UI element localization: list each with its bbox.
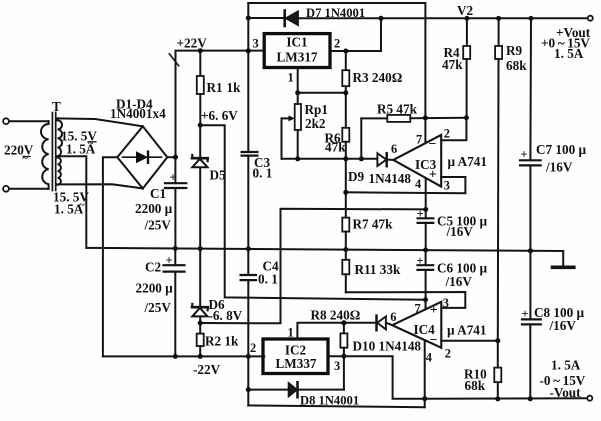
svg-text:-22V: -22V bbox=[193, 362, 221, 377]
wire: R11 to IC4 pin3 loop bbox=[346, 292, 466, 308]
label C7 100u/16V bbox=[536, 142, 586, 175]
svg-text:µ A741: µ A741 bbox=[447, 323, 486, 338]
svg-text:3: 3 bbox=[253, 37, 259, 51]
label -22V bbox=[193, 362, 221, 377]
wire: left +22V bus vertical bbox=[247, 3, 249, 405]
node: C2 on -22V rail bbox=[173, 354, 178, 359]
svg-text:1N4001x4: 1N4001x4 bbox=[110, 106, 166, 121]
svg-text:6: 6 bbox=[390, 310, 396, 324]
svg-text:−: − bbox=[430, 333, 438, 348]
node: D5/D6 on ground rail bbox=[198, 246, 203, 251]
pin 2 label IC1 bbox=[334, 37, 340, 51]
label V2 bbox=[457, 3, 474, 18]
node: pin1/Rp1 junction bbox=[295, 90, 300, 95]
pin 6 label IC4 bbox=[390, 310, 396, 324]
label C6 100u/16V bbox=[437, 261, 487, 290]
node: R9 on +V rail bbox=[496, 16, 501, 21]
node: R7 top junction bbox=[343, 190, 348, 195]
wire: IC4 pin7 stub bbox=[425, 300, 427, 310]
pin 1 label IC2 bbox=[288, 326, 294, 340]
node: C7 on +V rail bbox=[529, 16, 534, 21]
svg-text:2200 µ: 2200 µ bbox=[135, 201, 173, 216]
wire: -V output rail bbox=[425, 397, 587, 400]
svg-text:4: 4 bbox=[415, 177, 421, 191]
label 1.5A -0~15V -Vout bbox=[540, 358, 586, 400]
capacitor C7 bbox=[520, 18, 541, 250]
wire: IC3 pin3 loop bbox=[346, 177, 466, 193]
svg-text:68k: 68k bbox=[465, 378, 486, 393]
wire: IC3 pin2 loop bbox=[441, 118, 466, 141]
wire: IC1 pin2 output bbox=[330, 18, 381, 51]
pin 2 label IC2 bbox=[250, 341, 256, 355]
label R4 47k bbox=[442, 45, 463, 72]
node: C7/C8 on ground rail bbox=[528, 248, 533, 253]
node: R8 top junction bbox=[341, 320, 346, 325]
label R8 240ohm bbox=[311, 308, 361, 323]
node: R8/IC2 pin3 junction bbox=[342, 354, 347, 359]
svg-text:2200 µ: 2200 µ bbox=[136, 280, 174, 295]
label T bbox=[52, 99, 61, 114]
svg-text:LM337: LM337 bbox=[275, 356, 316, 371]
svg-text:+: + bbox=[522, 307, 529, 321]
label D7 1N4001 bbox=[306, 6, 365, 20]
wire: -22V bottom link bbox=[248, 405, 424, 407]
svg-text:R9: R9 bbox=[506, 43, 523, 58]
svg-text:2: 2 bbox=[444, 127, 450, 141]
svg-text:47k: 47k bbox=[325, 140, 346, 155]
node: C5/C6 on ground rail bbox=[423, 248, 428, 253]
svg-text:+: + bbox=[430, 303, 438, 318]
wire: Rp1/R6/D9 node wire bbox=[282, 158, 378, 160]
capacitor C3 bbox=[242, 152, 258, 156]
node: R3/R6 junction bbox=[343, 90, 348, 95]
wire: IC2 pin1 adj bbox=[297, 323, 376, 339]
svg-text:+: + bbox=[170, 171, 177, 185]
wire: R5 branch riser bbox=[360, 118, 362, 158]
diode D7 bbox=[285, 11, 298, 27]
node: left bus on -22V rail bbox=[246, 354, 251, 359]
svg-text:1k: 1k bbox=[227, 80, 242, 95]
wire: center tap to ground rail bbox=[58, 156, 87, 248]
svg-text:3: 3 bbox=[334, 359, 340, 373]
label uA741 (IC3) bbox=[448, 154, 487, 169]
wire: IC4 pin2 to R9/R10 bbox=[441, 340, 498, 342]
svg-text:R3 240Ω: R3 240Ω bbox=[353, 70, 403, 85]
label R1 1k bbox=[207, 80, 242, 95]
svg-text:7: 7 bbox=[415, 301, 421, 315]
wire: +6.6V branch to IC4 pin7 bbox=[200, 125, 425, 300]
wire: IC1 pin1 adj bbox=[298, 68, 346, 93]
node: IC1 out on +V rail bbox=[379, 16, 384, 21]
svg-text:/25V: /25V bbox=[144, 217, 172, 232]
label +22V bbox=[177, 36, 208, 51]
wire: bridge left vertex to -22V rail bbox=[103, 157, 117, 356]
svg-text:R11 33k: R11 33k bbox=[355, 262, 401, 277]
wire: R9 branch bbox=[498, 18, 500, 45]
op-amp IC4 bbox=[392, 302, 441, 348]
svg-text:µ A741: µ A741 bbox=[448, 154, 487, 169]
svg-text:+: + bbox=[417, 254, 424, 268]
resistor R4 bbox=[463, 46, 470, 118]
pin 7 label IC3 bbox=[416, 133, 422, 147]
svg-text:−: − bbox=[429, 137, 437, 152]
svg-text:D9: D9 bbox=[348, 169, 365, 184]
svg-text:R2 1k: R2 1k bbox=[205, 333, 239, 348]
bridge rectifier D1-D4 diamond bbox=[117, 126, 167, 188]
pin 3 label IC3 bbox=[444, 179, 450, 193]
switch slash mark bbox=[169, 54, 178, 66]
resistor R3 bbox=[342, 51, 349, 93]
label R10 68k bbox=[464, 367, 487, 394]
label C1 2200u/25V bbox=[135, 186, 173, 233]
wire: secondary bottom to bridge AC node bbox=[58, 184, 143, 188]
node: V2 on +V rail bbox=[464, 16, 469, 21]
svg-text:0. 1: 0. 1 bbox=[253, 165, 273, 180]
svg-text:+6. 6V: +6. 6V bbox=[201, 108, 238, 123]
svg-text:1N4148: 1N4148 bbox=[369, 171, 412, 186]
label D6 -6.8V bbox=[209, 297, 243, 323]
label R11 33k bbox=[355, 262, 401, 277]
wire: IC2 pin3 output bbox=[328, 356, 425, 399]
label D5 bbox=[210, 168, 227, 183]
pin 3 label IC4 bbox=[443, 296, 449, 310]
pin 1 label IC1 bbox=[288, 70, 294, 84]
wire: bridge right vertex to +22V node bbox=[167, 156, 175, 158]
pin 2 label IC3 bbox=[444, 127, 450, 141]
svg-text:IC1: IC1 bbox=[286, 35, 307, 50]
pin 6 label IC3 bbox=[391, 142, 397, 156]
transformer T core bbox=[52, 113, 55, 191]
svg-text:V2: V2 bbox=[457, 3, 474, 18]
svg-text:/16V: /16V bbox=[445, 274, 473, 289]
svg-text:R7 47k: R7 47k bbox=[353, 217, 394, 232]
pin 2 label IC4 bbox=[445, 346, 451, 360]
label D8 1N4001 bbox=[300, 394, 359, 408]
resistor R8 bbox=[340, 323, 347, 390]
wire: primary bottom lead bbox=[9, 188, 49, 190]
node: D7 junction on bus bbox=[246, 16, 251, 21]
transformer T primary winding bbox=[41, 121, 49, 189]
resistor R10 bbox=[494, 341, 501, 399]
regulator IC1 LM317 bbox=[264, 34, 330, 68]
label +6.6V bbox=[201, 108, 238, 123]
resistor R2 bbox=[197, 323, 204, 356]
svg-text:220V: 220V bbox=[4, 143, 34, 158]
svg-text:1. 5A: 1. 5A bbox=[54, 202, 84, 217]
svg-text:+: + bbox=[429, 168, 437, 183]
svg-text:D5: D5 bbox=[210, 168, 227, 183]
zener diode D6 bbox=[192, 249, 208, 323]
ground rail (0V) bbox=[86, 248, 563, 251]
capacitor C4 bbox=[241, 275, 256, 280]
label C3 0.1 bbox=[253, 155, 273, 180]
diode D10 bbox=[377, 316, 393, 331]
capacitor C5 bbox=[417, 207, 434, 250]
resistor R7 bbox=[342, 218, 349, 250]
pin 4 label IC4 bbox=[426, 351, 432, 365]
wire: +22V riser bbox=[176, 51, 265, 158]
node: Rp1 bottom bbox=[295, 156, 300, 161]
node: R7/R11 on ground rail bbox=[343, 247, 348, 252]
svg-text:4: 4 bbox=[426, 351, 432, 365]
label D1-D4 1N4001x4 bbox=[110, 97, 166, 121]
AC input terminal top bbox=[3, 118, 9, 124]
svg-text:1: 1 bbox=[288, 326, 294, 340]
label secondary upper 15.5V 1.5A bbox=[61, 129, 97, 157]
svg-text:2k2: 2k2 bbox=[305, 116, 326, 131]
node: R9/R10/pin2 junction bbox=[495, 338, 500, 343]
wire: top link to IC3 pin7 bbox=[248, 3, 425, 118]
svg-text:D7 1N4001: D7 1N4001 bbox=[306, 6, 365, 20]
wire: -6.8V branch to IC3 pin4 bbox=[200, 209, 426, 324]
resistor R9 bbox=[495, 46, 502, 341]
svg-text:/25V: /25V bbox=[144, 300, 172, 315]
svg-text:/16V: /16V bbox=[549, 318, 577, 333]
wire: IC3 pin7 stub bbox=[424, 118, 426, 143]
capacitor C2 bbox=[164, 248, 185, 356]
potentiometer Rp1 bbox=[282, 93, 302, 159]
label R6 47k bbox=[325, 131, 347, 155]
label C2 2200u/25V bbox=[136, 259, 174, 315]
resistor R11 bbox=[342, 250, 349, 293]
zener diode D5 bbox=[192, 125, 208, 248]
pin 7 label IC4 bbox=[415, 301, 421, 315]
svg-text:2: 2 bbox=[250, 341, 256, 355]
terminal +Vout bbox=[588, 16, 593, 21]
svg-text:/16V: /16V bbox=[446, 224, 474, 239]
node: C1/C2 on ground rail bbox=[173, 246, 178, 251]
node: D8 wire on bus bbox=[246, 387, 251, 392]
transformer T secondary upper winding bbox=[58, 118, 63, 156]
bridge inner diode symbol bbox=[123, 151, 162, 163]
AC input terminal bottom bbox=[3, 186, 9, 192]
node: bridge+ / C1 junction bbox=[173, 155, 178, 160]
node: R5/pin7 junction bbox=[423, 115, 428, 120]
svg-text:R1: R1 bbox=[207, 80, 223, 95]
svg-text:-6. 8V: -6. 8V bbox=[209, 308, 243, 323]
wire: V2 branch bbox=[466, 18, 468, 45]
label R7 47k bbox=[353, 217, 394, 232]
label C4 0.1 bbox=[258, 259, 279, 287]
label uA741 (IC4) bbox=[447, 323, 486, 338]
op-amp IC3 bbox=[393, 135, 441, 187]
svg-text:0. 1: 0. 1 bbox=[258, 271, 278, 286]
svg-text:+22V: +22V bbox=[177, 36, 208, 51]
capacitor C6 bbox=[417, 250, 434, 309]
svg-text:C1: C1 bbox=[150, 186, 166, 201]
wire: D8 branch bbox=[248, 389, 344, 391]
svg-text:3: 3 bbox=[444, 179, 450, 193]
svg-text:D8 1N4001: D8 1N4001 bbox=[300, 394, 359, 408]
diode D9 bbox=[377, 153, 393, 166]
wire: IC4 pin4 to -Vout junction bbox=[424, 340, 426, 407]
label R2 1k bbox=[205, 333, 239, 348]
svg-text:3: 3 bbox=[443, 296, 449, 310]
svg-text:D10 1N4148: D10 1N4148 bbox=[353, 339, 422, 354]
svg-text:LM317: LM317 bbox=[276, 50, 317, 65]
svg-text:+: + bbox=[166, 254, 173, 268]
svg-text:2: 2 bbox=[334, 37, 340, 51]
svg-text:/16V: /16V bbox=[545, 160, 573, 175]
svg-text:68k: 68k bbox=[506, 58, 527, 73]
node: R1 top on +22V wire bbox=[198, 48, 203, 53]
svg-text:C7 100 µ: C7 100 µ bbox=[536, 142, 586, 157]
svg-text:1. 5A: 1. 5A bbox=[554, 46, 584, 61]
node: +22V wire on bus bbox=[246, 48, 251, 53]
node: -Vout 4-way junction bbox=[422, 396, 427, 401]
pin 3 label IC2 bbox=[334, 359, 340, 373]
svg-text:1. 5A: 1. 5A bbox=[66, 142, 96, 157]
label Rp1 2k2 bbox=[305, 102, 328, 131]
label R9 68k bbox=[506, 43, 527, 73]
svg-text:2: 2 bbox=[445, 346, 451, 360]
svg-text:R5 47k: R5 47k bbox=[377, 102, 418, 117]
node: R5 tap bbox=[359, 156, 364, 161]
node: R2 on -22V rail bbox=[198, 354, 203, 359]
wire: primary top lead bbox=[9, 120, 49, 122]
capacitor C8 bbox=[522, 251, 541, 399]
label C5 100u/16V bbox=[437, 214, 487, 240]
svg-text:47k: 47k bbox=[442, 57, 463, 72]
label D10 1N4148 bbox=[353, 339, 422, 354]
node: +6.6V junction bbox=[198, 123, 203, 128]
svg-text:+: + bbox=[417, 207, 424, 221]
node: C3/C4 bus on ground rail bbox=[246, 246, 251, 251]
node: -6.8V to pin4 junction bbox=[423, 207, 428, 212]
resistor R5 bbox=[361, 115, 466, 122]
pin 4 label IC3 bbox=[415, 177, 421, 191]
pin 3 label IC1 bbox=[253, 37, 259, 51]
transformer T secondary lower winding bbox=[58, 158, 61, 185]
node: R4 bottom junction bbox=[464, 115, 469, 120]
svg-text:-Vout: -Vout bbox=[550, 385, 582, 400]
wire: secondary top to bridge AC node bbox=[58, 118, 143, 126]
label secondary lower 15.5V 1.5A bbox=[53, 190, 89, 217]
svg-text:Rp1: Rp1 bbox=[305, 102, 328, 117]
label R3 240ohm bbox=[353, 70, 403, 85]
label D9 1N4148 bbox=[348, 169, 411, 186]
node: -6.8V junction bbox=[198, 321, 203, 326]
diode D8 bbox=[289, 382, 298, 397]
node: R3 top bbox=[343, 49, 348, 54]
svg-text:1: 1 bbox=[288, 70, 294, 84]
node: R10 on -V rail bbox=[495, 396, 500, 401]
resistor R6 bbox=[342, 93, 349, 159]
wire: IC3 pin4 stub bbox=[425, 178, 427, 218]
svg-text:6: 6 bbox=[391, 142, 397, 156]
node: R6 bottom bbox=[343, 156, 348, 161]
svg-text:R8 240Ω: R8 240Ω bbox=[311, 308, 361, 323]
resistor R1 bbox=[197, 51, 204, 126]
label 220V bbox=[4, 143, 34, 165]
svg-text:+: + bbox=[521, 148, 528, 162]
wire: R7 chain bbox=[345, 159, 347, 218]
svg-text:7: 7 bbox=[416, 133, 422, 147]
ground symbol bbox=[553, 251, 574, 267]
label +Vout +0~15V 1.5A bbox=[541, 25, 591, 61]
wire: -22V rail bbox=[103, 355, 264, 357]
label C8 100u/16V bbox=[534, 305, 584, 333]
svg-text:T: T bbox=[52, 99, 61, 114]
regulator IC2 LM337 bbox=[263, 339, 328, 374]
terminal -Vout bbox=[587, 396, 592, 401]
node: C8 on -V rail bbox=[528, 396, 533, 401]
label R5 47k bbox=[377, 102, 418, 117]
svg-text:C2: C2 bbox=[145, 259, 162, 274]
node: +6.6V wire to pin7 junction bbox=[423, 297, 428, 302]
svg-text:1. 5A: 1. 5A bbox=[551, 358, 581, 373]
wire: +V output rail (D7 to +Vout) bbox=[248, 17, 587, 19]
svg-text:~: ~ bbox=[23, 154, 29, 165]
capacitor C1 bbox=[165, 157, 186, 248]
